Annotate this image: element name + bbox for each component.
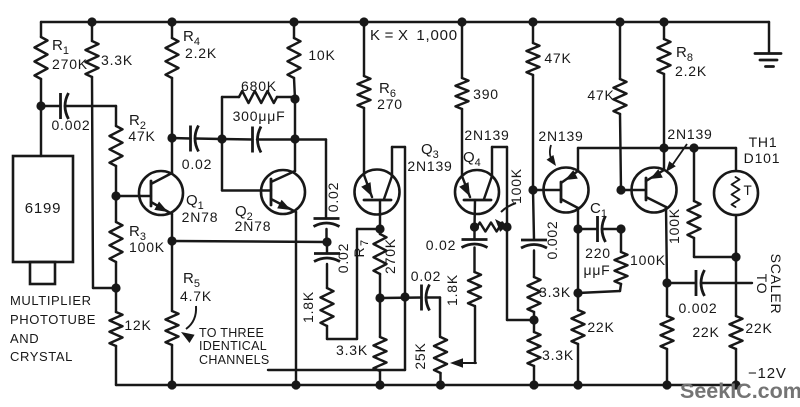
resistor 3.3K Q3 load: [379, 298, 381, 337]
wire Q1 base: [116, 195, 151, 197]
svg-text:270: 270: [377, 96, 403, 112]
capacitor 300uuF feedback: [222, 138, 253, 141]
node TH1 cathode: [731, 252, 740, 261]
node divider mid: [529, 315, 538, 324]
svg-text:3.3K: 3.3K: [336, 342, 368, 358]
wire emitter rail: [578, 147, 736, 149]
svg-text:100K: 100K: [129, 239, 165, 255]
svg-text:D101: D101: [744, 150, 781, 166]
svg-text:0.002: 0.002: [51, 117, 90, 133]
svg-text:IDENTICAL: IDENTICAL: [199, 339, 267, 353]
svg-text:0.02: 0.02: [411, 268, 441, 284]
resistor R4 2.2K: [171, 22, 173, 38]
svg-text:PHOTOTUBE: PHOTOTUBE: [10, 312, 96, 327]
resistor R1 270K: [40, 22, 42, 37]
resistor 1.8K stage3: [468, 272, 481, 306]
svg-text:CRYSTAL: CRYSTAL: [10, 349, 73, 364]
svg-text:T: T: [743, 183, 752, 198]
svg-text:100K: 100K: [666, 208, 682, 244]
svg-text:0.02: 0.02: [426, 237, 456, 253]
resistor 22K output: [666, 283, 668, 316]
svg-text:270K: 270K: [52, 56, 88, 72]
svg-text:680K: 680K: [241, 78, 277, 94]
svg-text:12K: 12K: [124, 317, 151, 333]
arrow 2N139 Q6 leader: [671, 144, 687, 167]
resistor R8 2.2K: [663, 22, 665, 39]
resistor 3.3K divider upper: [528, 277, 541, 312]
svg-text:0.02: 0.02: [325, 182, 341, 212]
transistor Q6 2N139: [632, 168, 677, 213]
node 100K TH1 junction: [689, 143, 698, 152]
node Q1 emitter: [167, 236, 176, 245]
resistor 22K TH1: [735, 257, 737, 316]
phototube 6199 box: [13, 156, 73, 262]
resistor 47K Q5 bias: [532, 22, 534, 43]
svg-text:270K: 270K: [382, 238, 398, 274]
svg-text:100K: 100K: [630, 252, 666, 268]
resistor 10K: [293, 22, 295, 38]
svg-text:3.3K: 3.3K: [101, 52, 133, 68]
svg-text:10K: 10K: [308, 47, 335, 63]
node R8 emitter junction: [659, 143, 668, 152]
svg-text:2N139: 2N139: [407, 158, 452, 174]
capacitor 0.02 upper: [314, 217, 340, 220]
capacitor 0.002 input: [41, 105, 61, 107]
node Q5 base: [528, 185, 537, 194]
resistor 3.3K bias: [91, 22, 93, 41]
wire Q1 emitter bus: [172, 241, 327, 242]
svg-text:0.002: 0.002: [544, 220, 560, 259]
svg-text:AND: AND: [10, 331, 39, 346]
capacitor 0.002 output: [667, 282, 696, 284]
node 680K-10K junction: [290, 94, 299, 103]
junction dots on top rail: [87, 17, 96, 26]
node R3-12K junction: [111, 283, 120, 292]
svg-text:2N139: 2N139: [464, 127, 509, 143]
node Q4 collector top: [502, 222, 511, 231]
resistor 680K feedback: [221, 97, 223, 139]
node Q2 base net: [217, 134, 226, 143]
wire Q5 emitter down: [577, 229, 579, 293]
node Q3 base: [375, 224, 384, 233]
wire R1 to phototube: [40, 106, 42, 156]
svg-text:K = X 1,000: K = X 1,000: [370, 27, 458, 44]
svg-text:SeekIC.com: SeekIC.com: [680, 379, 800, 403]
wire Q5 base: [533, 189, 561, 191]
svg-text:0.02: 0.02: [182, 156, 212, 172]
arrow 100K wiper: [501, 203, 516, 212]
svg-text:2.2K: 2.2K: [675, 63, 707, 79]
transistor Q3 2N139: [355, 170, 400, 215]
svg-text:2N139: 2N139: [538, 128, 583, 144]
transistor Q4 2N139: [455, 170, 499, 214]
svg-text:47K: 47K: [587, 87, 614, 103]
arrow 25K wiper: [457, 362, 476, 364]
svg-text:2N78: 2N78: [235, 218, 272, 234]
capacitor 0.02 lower: [326, 242, 328, 254]
arrow R5 wiper: [186, 306, 196, 329]
svg-text:R: R: [351, 247, 367, 258]
node Q5 emitter top: [573, 224, 582, 233]
svg-text:7: 7: [359, 240, 371, 246]
node C1 right: [616, 224, 625, 233]
wire top supply rail: [41, 21, 769, 23]
resistor 1.8K stage2: [321, 288, 334, 326]
node Q6 collector output: [662, 278, 671, 287]
svg-text:3.3K: 3.3K: [542, 347, 574, 363]
resistor 390: [461, 22, 463, 78]
svg-text:22K: 22K: [587, 319, 614, 335]
node summing junction: [322, 237, 331, 246]
potentiometer 25K: [434, 337, 447, 373]
transistor Q1 2N78: [139, 171, 183, 215]
node Q4 base: [470, 222, 479, 231]
node R1-phototube junction: [36, 101, 45, 110]
wire bottom supply rail: [116, 384, 736, 386]
svg-text:TO: TO: [754, 274, 770, 295]
resistor R7 270K feedback: [379, 229, 381, 234]
transistor Q2 2N78: [261, 170, 305, 214]
tube TH1 D101: [735, 148, 737, 171]
svg-text:6199: 6199: [25, 200, 62, 217]
svg-text:0.02: 0.02: [335, 243, 351, 273]
resistor 100K TH1: [693, 148, 695, 201]
svg-text:220: 220: [585, 245, 611, 261]
svg-text:TH1: TH1: [749, 134, 778, 150]
potentiometer 100K feedback: [477, 223, 505, 232]
wire 25K wiper to 1.8K: [474, 306, 476, 363]
svg-text:μμF: μμF: [583, 262, 610, 278]
potentiometer R5 4.7K: [166, 311, 179, 345]
wire Q2 collector to 0.02: [295, 138, 326, 140]
capacitor 0.02 to 25K: [420, 285, 423, 311]
node output to channels: [400, 292, 409, 301]
resistor R3 100K: [115, 196, 117, 222]
svg-text:1.8K: 1.8K: [444, 274, 460, 306]
wire Q3 collector bus: [380, 296, 422, 299]
node Q1 base: [111, 191, 120, 200]
svg-text:3.3K: 3.3K: [539, 284, 571, 300]
capacitor 0.02 Q4 input: [473, 248, 475, 273]
transistor Q5 2N139: [544, 168, 589, 213]
capacitor 0.002 divider: [533, 190, 534, 240]
svg-text:4.7K: 4.7K: [180, 288, 212, 304]
node Q3 collector: [375, 293, 384, 302]
node Q5 emitter bottom: [573, 288, 582, 297]
capacitor C1 220uuF: [578, 228, 598, 230]
svg-text:TO THREE: TO THREE: [199, 326, 264, 340]
svg-text:100K: 100K: [508, 168, 524, 204]
svg-text:22K: 22K: [692, 324, 719, 340]
svg-text:2.2K: 2.2K: [185, 45, 217, 61]
svg-text:47K: 47K: [544, 50, 571, 66]
wire Q2 base: [221, 139, 223, 191]
wire to three channels: [404, 297, 406, 370]
node Q1 collector: [167, 133, 176, 142]
node Q2 collector: [290, 134, 299, 143]
junction dots on bottom rail: [167, 380, 176, 389]
arrow 2N139 Q5 leader: [550, 145, 553, 162]
svg-text:SCALER: SCALER: [768, 254, 784, 315]
wire Q1 emitter to R5: [171, 241, 173, 311]
svg-text:CHANNELS: CHANNELS: [199, 353, 269, 367]
svg-text:2N78: 2N78: [182, 209, 219, 225]
resistor 47K Q6 bias: [619, 22, 621, 79]
svg-text:22K: 22K: [745, 320, 772, 336]
wire 3.3K to R3 node: [93, 287, 116, 289]
svg-text:47K: 47K: [128, 128, 155, 144]
svg-text:25K: 25K: [412, 342, 428, 369]
resistor 3.3K divider lower: [533, 320, 535, 332]
resistor R6 270: [363, 22, 365, 76]
wire 10K to Q2 collector: [294, 99, 296, 139]
capacitor 0.02 Q1-Q2: [172, 137, 191, 140]
svg-text:2N139: 2N139: [667, 126, 712, 142]
node Q6 base: [616, 185, 625, 194]
resistor 100K C1 parallel: [620, 229, 622, 252]
svg-text:390: 390: [473, 86, 499, 102]
svg-text:300μμF: 300μμF: [233, 108, 286, 124]
resistor 22K Q5 emitter: [577, 293, 579, 310]
resistor 12K: [115, 288, 117, 312]
svg-text:1.8K: 1.8K: [300, 291, 316, 323]
svg-text:0.002: 0.002: [678, 300, 717, 316]
ground: [768, 22, 770, 53]
wire 1.8K to Q3 base: [327, 338, 357, 340]
resistor R2 47K: [110, 126, 123, 166]
wire Q6 base: [621, 189, 646, 191]
svg-text:MULTIPLIER: MULTIPLIER: [10, 293, 92, 308]
